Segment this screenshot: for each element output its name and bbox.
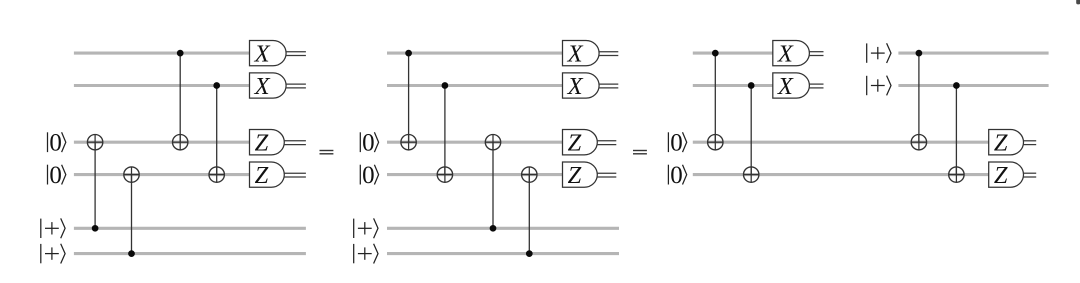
svg-text:Z: Z	[994, 162, 1008, 189]
circuit 1 wire q4	[74, 173, 250, 176]
circuit 1 wire q6	[74, 252, 306, 255]
circuit 2 wire q4	[387, 173, 563, 176]
circuit 2 CNOT-1 target on q3	[401, 135, 416, 150]
circuit 2 CNOT-1 control dot on q1	[405, 50, 412, 57]
svg-text:X: X	[777, 41, 794, 68]
circuit 3 wire q3	[693, 141, 989, 144]
circuit 3 X measurement q1	[773, 40, 810, 67]
circuit 2 classical wire from Z q3	[597, 141, 616, 145]
circuit 3 CNOT-1 target on q3	[708, 135, 723, 150]
circuit 1 CNOT-3 vertical wire	[179, 53, 181, 142]
circuit 3 wire q1 second segment	[898, 52, 1048, 55]
circuit 2 CNOT-2 target on q4	[437, 167, 452, 182]
circuit 1 classical wire from Z q4	[284, 173, 306, 177]
circuit 1 CNOT-4 target on q4	[209, 167, 224, 182]
circuit 2 wire q3	[387, 141, 563, 144]
circuit 1 Z measurement q3	[250, 130, 285, 157]
circuit 3 Z measurement q4	[989, 162, 1024, 189]
circuit 1 wire q5	[74, 227, 306, 230]
circuit 2 classical wire from X q1	[599, 52, 618, 56]
equals sign 1	[320, 150, 334, 155]
circuit 2 classical wire from X q2	[599, 84, 618, 88]
svg-text:X: X	[254, 73, 271, 100]
circuit 1 CNOT-1 control dot on q5	[92, 225, 99, 232]
circuit 1 CNOT-2 target on q4	[124, 167, 139, 182]
circuit 2 X measurement q1	[563, 40, 600, 67]
circuit 3 CNOT-3 target on q3	[911, 135, 926, 150]
circuit 1 X measurement q2	[250, 73, 287, 100]
circuit 3 wire q2 first segment	[693, 84, 773, 87]
svg-text:Z: Z	[568, 162, 582, 189]
circuit 1 ket |0> label q4	[48, 162, 66, 189]
circuit 1 CNOT-3 control dot on q1	[177, 50, 184, 57]
circuit 1 wire q2	[74, 84, 250, 87]
circuit 1 wire q1	[74, 52, 250, 55]
circuit 2 wire q6	[387, 252, 619, 255]
circuit 1 ket |+> label q6	[41, 244, 65, 264]
circuit 3 CNOT-3 control dot on q1	[916, 50, 923, 57]
svg-text:X: X	[254, 41, 271, 68]
circuit 2 CNOT-3 vertical wire	[492, 142, 494, 228]
circuit 1 CNOT-2 control dot on q6	[128, 250, 135, 257]
circuit 2 ket |+> label q6	[354, 244, 378, 264]
svg-text:X: X	[777, 73, 794, 100]
circuit 1 CNOT-3 target on q3	[173, 135, 188, 150]
svg-text:0: 0	[362, 162, 375, 189]
circuit 1 wire q3	[74, 141, 250, 144]
svg-text:0: 0	[49, 162, 62, 189]
circuit 1 ket |+> label q5	[41, 218, 65, 238]
circuit 3 X measurement q2	[773, 73, 810, 100]
equals sign 2	[633, 150, 647, 155]
circuit 3 classical wire from Z q4	[1024, 173, 1037, 177]
circuit 1 CNOT-1 target on q3	[87, 135, 102, 150]
circuit 2 Z measurement q4	[563, 162, 598, 189]
svg-text:Z: Z	[255, 130, 269, 157]
circuit 2 ket |0> label q3	[360, 129, 378, 156]
circuit 1 CNOT-4 control dot on q2	[213, 82, 220, 89]
circuit 2 classical wire from Z q4	[597, 173, 616, 177]
circuit 3 ket |0> label q3	[668, 129, 686, 156]
svg-text:Z: Z	[255, 162, 269, 189]
circuit 1 classical wire from Z q3	[284, 141, 306, 145]
circuit 1 ket |0> label q3	[48, 129, 66, 156]
circuit 3 CNOT-2 target on q4	[744, 167, 759, 182]
circuit 3 CNOT-4 vertical wire	[955, 86, 957, 175]
circuit 2 CNOT-4 control dot on q6	[526, 250, 533, 257]
circuit 3 CNOT-2 control dot on q2	[748, 82, 755, 89]
circuit 2 CNOT-4 target on q4	[522, 167, 537, 182]
circuit 3 ket |+> label new q1	[867, 43, 891, 63]
circuit 2 ket |+> label q5	[354, 218, 378, 238]
circuit 2 CNOT-2 vertical wire	[444, 86, 446, 175]
circuit 1 CNOT-1 vertical wire	[94, 142, 96, 228]
svg-text:X: X	[567, 73, 584, 100]
circuit 3 wire q2 second segment	[898, 84, 1048, 87]
circuit 3 classical wire from X q1	[809, 52, 823, 56]
circuit 2 CNOT-1 vertical wire	[408, 53, 410, 142]
circuit 3 classical wire from Z q3	[1024, 141, 1037, 145]
circuit 1 Z measurement q4	[250, 162, 285, 189]
circuit 2 CNOT-2 control dot on q2	[442, 82, 449, 89]
svg-text:Z: Z	[994, 130, 1008, 157]
circuit 2 wire q2	[387, 84, 563, 87]
page corner mark top-right	[1076, 0, 1080, 4]
circuit 3 CNOT-3 vertical wire	[918, 53, 920, 142]
circuit 2 CNOT-3 target on q3	[485, 135, 500, 150]
circuit 1 classical wire from X q1	[286, 52, 306, 56]
svg-text:0: 0	[670, 162, 683, 189]
svg-text:Z: Z	[568, 130, 582, 157]
circuit 3 ket |+> label new q2	[867, 76, 891, 96]
svg-text:0: 0	[362, 129, 375, 156]
circuit 3 CNOT-4 target on q4	[949, 167, 964, 182]
circuit 3 Z measurement q3	[989, 130, 1024, 157]
svg-text:0: 0	[49, 129, 62, 156]
circuit 2 Z measurement q3	[563, 130, 598, 157]
circuit 2 X measurement q2	[563, 73, 600, 100]
circuit 3 CNOT-1 control dot on q1	[712, 50, 719, 57]
svg-text:0: 0	[670, 129, 683, 156]
circuit 1 X measurement q1	[250, 40, 287, 67]
circuit 2 ket |0> label q4	[360, 162, 378, 189]
circuit 3 wire q1 first segment	[693, 52, 773, 55]
circuit 3 CNOT-2 vertical wire	[750, 86, 752, 175]
circuit 3 ket |0> label q4	[668, 162, 686, 189]
circuit 2 wire q5	[387, 227, 619, 230]
circuit 3 wire q4	[693, 173, 989, 176]
circuit 3 CNOT-1 vertical wire	[714, 53, 716, 142]
circuit 1 classical wire from X q2	[286, 84, 306, 88]
circuit 3 classical wire from X q2	[809, 84, 823, 88]
circuit 2 CNOT-3 control dot on q5	[490, 225, 497, 232]
circuit 1 CNOT-2 vertical wire	[131, 175, 133, 254]
circuit 1 CNOT-4 vertical wire	[216, 86, 218, 175]
circuit 2 wire q1	[387, 52, 563, 55]
circuit 3 CNOT-4 control dot on q2	[953, 82, 960, 89]
svg-text:X: X	[567, 41, 584, 68]
circuit 2 CNOT-4 vertical wire	[528, 175, 530, 254]
